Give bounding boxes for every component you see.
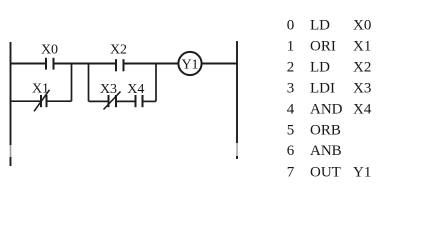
contact X3 bar 1: [108, 95, 110, 107]
svg-text:LD: LD: [310, 18, 330, 34]
slash of NC contact X1: [34, 90, 50, 112]
svg-text:5: 5: [287, 122, 295, 138]
contact X3 bar 2: [115, 95, 117, 107]
contact X0 bar 1: [45, 58, 47, 70]
coil Y1 circle: [178, 52, 201, 75]
left power rail: [10, 42, 12, 145]
svg-text:X4: X4: [127, 82, 144, 97]
contact X2 bar 1: [115, 59, 117, 71]
wire: X3/X4 branch, between X3 and X4: [116, 100, 136, 102]
instruction list line 3: [287, 80, 372, 96]
wire: main rung, X2 to coil Y1: [124, 63, 179, 65]
slash of NC contact X3: [104, 92, 121, 110]
instruction list line 0: [287, 18, 372, 34]
svg-text:LDI: LDI: [310, 80, 335, 96]
instruction list line 1: [287, 39, 372, 55]
svg-text:4: 4: [287, 101, 295, 117]
wire: main rung, rail to X0: [11, 63, 47, 65]
wire: coil Y1 to right rail: [202, 63, 237, 65]
wire: X3/X4 branch, right segment: [143, 100, 157, 102]
svg-text:ANB: ANB: [310, 143, 342, 159]
svg-text:OUT: OUT: [310, 164, 341, 180]
svg-text:LD: LD: [310, 59, 330, 75]
svg-text:Y1: Y1: [353, 164, 371, 180]
wire: vertical junction, X1 branch rejoins rung: [71, 64, 73, 102]
right power rail: [236, 41, 238, 143]
wire: main rung, X0 to X2: [54, 63, 117, 65]
contact X0 bar 2: [53, 58, 55, 70]
svg-text:6: 6: [287, 143, 295, 159]
svg-text:X3: X3: [100, 82, 117, 97]
svg-text:X1: X1: [32, 82, 49, 97]
contact X4 bar 2: [142, 95, 144, 107]
instruction list line 7: [287, 164, 372, 180]
svg-text:ORB: ORB: [310, 122, 341, 138]
instruction list line 2: [287, 59, 372, 75]
svg-text:X2: X2: [110, 43, 127, 58]
wire: X1 branch to junction: [47, 100, 72, 102]
wire: right vertical of X3/X4 parallel block: [155, 64, 157, 102]
svg-text:X0: X0: [353, 18, 371, 34]
instruction list line 5: [287, 122, 341, 138]
contact X2 bar 2: [123, 59, 125, 71]
svg-text:X2: X2: [353, 59, 371, 75]
svg-text:0: 0: [287, 18, 295, 34]
svg-text:X3: X3: [353, 80, 371, 96]
contact X4 bar 1: [135, 95, 137, 107]
wire: X1 branch from left rail: [11, 100, 42, 102]
contact X1 bar 2: [46, 95, 48, 107]
svg-text:X1: X1: [353, 39, 371, 55]
svg-text:ORI: ORI: [310, 39, 336, 55]
svg-text:X0: X0: [41, 43, 58, 58]
wire: X3/X4 branch, left segment: [89, 100, 109, 102]
svg-text:3: 3: [287, 80, 295, 96]
svg-text:AND: AND: [310, 101, 343, 117]
svg-text:Y1: Y1: [181, 57, 198, 72]
svg-text:7: 7: [287, 164, 295, 180]
wire: left vertical of X3/X4 parallel block: [88, 64, 90, 102]
contact X1 bar 1: [40, 95, 42, 107]
svg-text:X4: X4: [353, 101, 372, 117]
svg-text:1: 1: [287, 39, 295, 55]
svg-text:2: 2: [287, 59, 295, 75]
instruction list line 4: [287, 101, 372, 117]
instruction list line 6: [287, 143, 342, 159]
